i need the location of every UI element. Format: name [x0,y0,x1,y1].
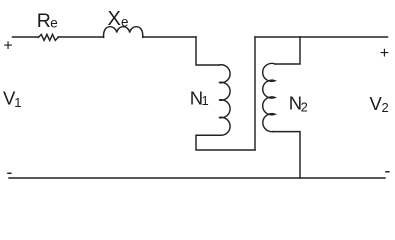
svg-text:2: 2 [382,100,389,115]
svg-text:e: e [121,15,129,30]
wire inductor to N1 drop [143,36,196,38]
inductor Xe (3 humps) [104,27,143,38]
svg-text:1: 1 [14,95,21,110]
resistor Re zigzag [39,34,59,40]
svg-text:-: - [384,160,390,180]
svg-text:e: e [50,16,58,31]
wire top-right bus [255,36,388,38]
svg-text:R: R [37,10,51,32]
wire N2 bottom lead down to bottom bus [273,132,300,178]
svg-text:X: X [108,8,121,30]
wire N2 top drop [275,37,300,64]
svg-text:+: + [3,38,12,55]
svg-text:+: + [380,45,389,62]
wire top-left from + terminal to resistor [13,36,39,38]
wire center riser to top-right net [254,37,256,150]
wire resistor to inductor [58,36,104,38]
wire bottom bus [9,177,385,179]
svg-text:-: - [6,162,12,182]
winding N2 (4 turns bulging left) [263,63,275,131]
svg-text:2: 2 [301,99,308,114]
svg-text:1: 1 [202,93,209,108]
winding N1 (4 turns bulging right) [219,65,230,135]
wire N1 top drop [196,37,219,65]
wire N1 bottom lead to center riser [196,135,255,150]
